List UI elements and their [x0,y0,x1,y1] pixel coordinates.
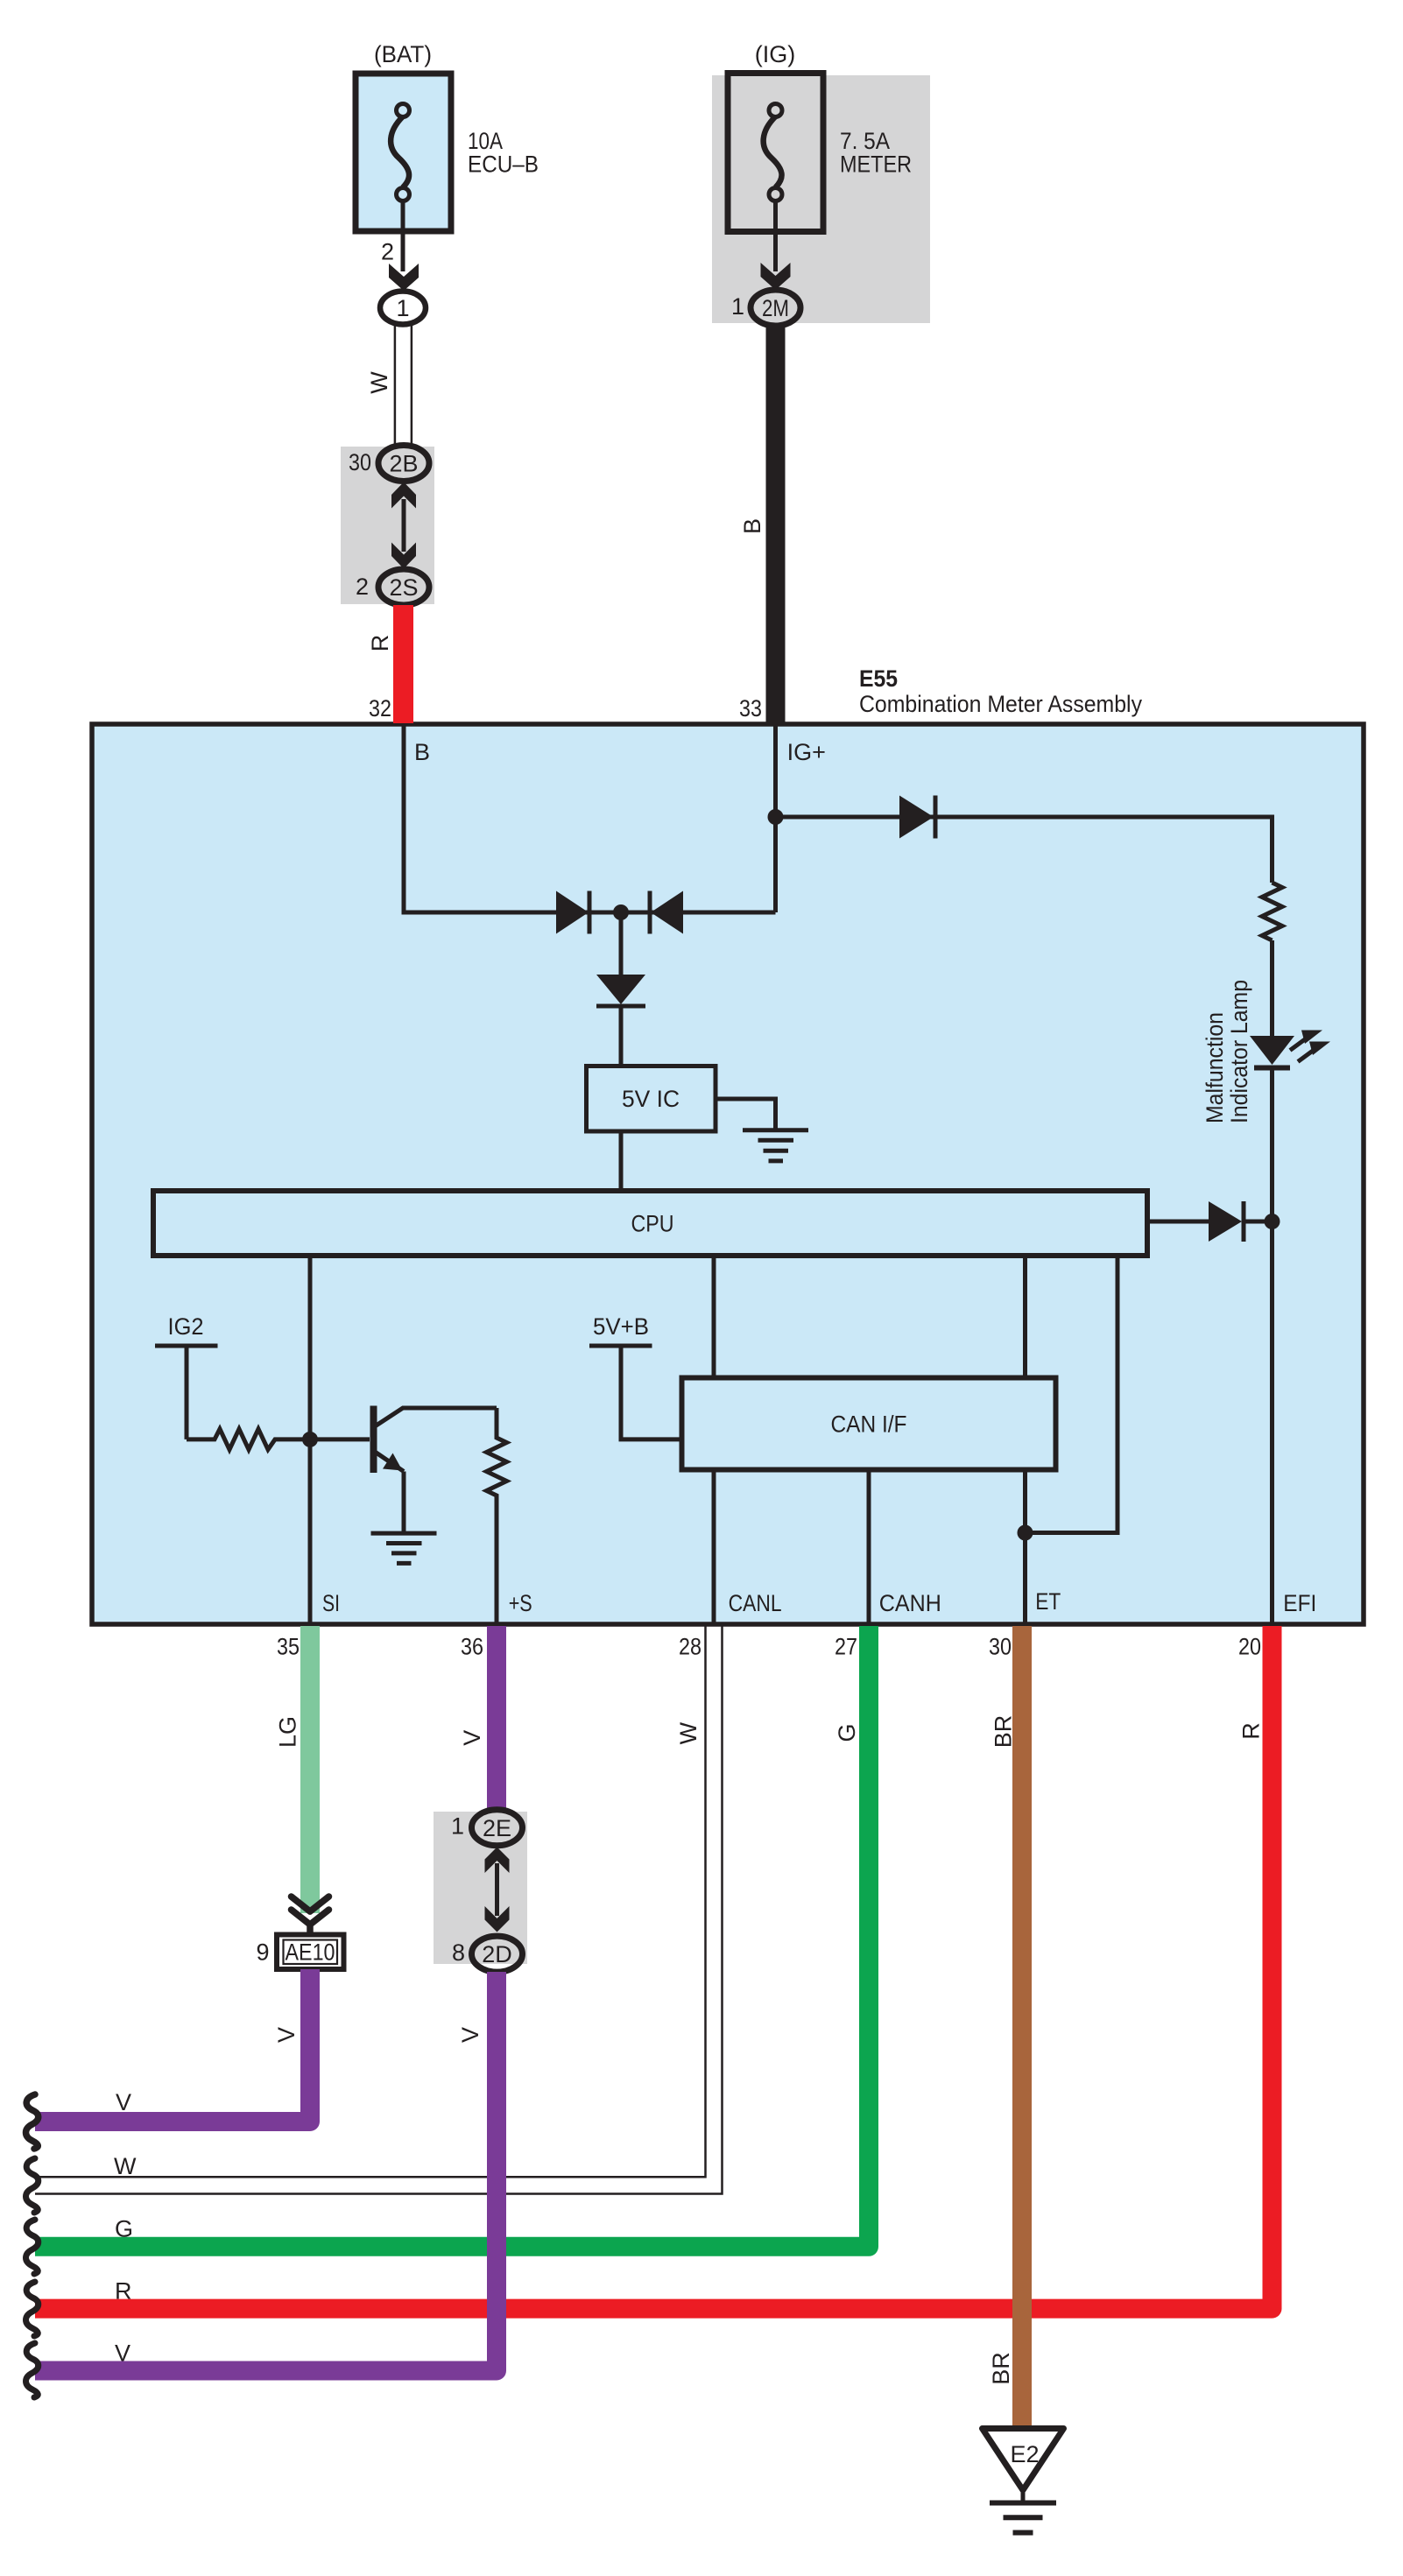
svg-text:33: 33 [739,695,762,721]
wire CPU to diode D5 [1150,1220,1209,1224]
diode D4 (pointing down into 5V IC) [596,975,645,1006]
wire BR from ET pin to E2 ground [1012,1626,1032,2431]
svg-text:R: R [367,635,393,652]
svg-text:AE10: AE10 [286,1939,335,1966]
junction node SI/base [302,1432,318,1447]
wire CPU to ET elbow [1026,1256,1118,1533]
transistor Q1 (NPN) [374,1406,497,1534]
wire V from 2D down to bottom left [35,1972,497,2371]
svg-text:W: W [114,2153,137,2179]
ground (emitter) [371,1533,437,1563]
svg-text:V: V [457,2027,483,2043]
junction node EFI line [1265,1214,1280,1229]
wire CAN I/F to CANH pin [867,1470,871,1622]
svg-text:2E: 2E [483,1815,511,1841]
wire diode pair row [540,911,776,915]
CAN I/F box [682,1378,1056,1470]
junction connector 2B/2S gray background [341,447,434,604]
svg-text:2B: 2B [389,451,418,477]
wire LED to EFI junction and pin EFI [1270,1070,1274,1622]
svg-text:Indicator Lamp: Indicator Lamp [1226,980,1252,1123]
svg-text:IG2: IG2 [168,1313,204,1340]
wire diode to 5V IC [619,1006,624,1066]
svg-text:2S: 2S [389,574,418,601]
connector oval 2M [751,290,800,326]
svg-text:2: 2 [356,574,369,600]
svg-text:E2: E2 [1010,2441,1039,2467]
regulator 5V IC [587,1066,716,1132]
wire W from connector 1 to junction connector 2B [395,324,412,446]
wire R from 2S to meter box pin 32 [393,605,413,723]
wire resistor to LED [1270,940,1274,1037]
svg-text:W: W [366,371,392,394]
junction node at diode pair [613,904,629,920]
resistor R2 (MIL series resistor) [1262,883,1282,940]
wire W from CANL pin to bottom left [35,1626,723,2194]
svg-text:B: B [414,739,430,765]
fuse ECU-B 10A (BAT) [356,74,451,231]
arrow into connector 2M [761,263,791,290]
svg-text:(BAT): (BAT) [374,41,432,67]
node IG+ internal wire (pin 33 down to diode pair row) [773,726,778,912]
svg-text:30: 30 [349,449,371,475]
ground E2 [983,2429,1064,2533]
svg-text:V: V [273,2027,300,2043]
wire CPU to CAN I/F [1023,1256,1027,1378]
svg-text:CAN I/F: CAN I/F [831,1411,907,1438]
diode D5 (CPU to EFI line, pointing right) [1209,1201,1273,1242]
arrow (double chevron) into AE10 [292,1897,329,1935]
double arrow between 2E and 2D [485,1848,510,1932]
power symbol 5V+B [589,1346,680,1439]
diode D2 (from IG+, pointing left) [650,891,683,934]
svg-text:2M: 2M [762,295,789,321]
svg-text:+S: +S [509,1590,532,1616]
svg-text:B: B [739,518,765,534]
ground (5V IC) [743,1130,808,1161]
svg-text:1: 1 [731,293,744,320]
svg-text:CANL: CANL [729,1590,782,1616]
connector oval 2D with pin 8 [472,1936,523,1972]
junction node on IG+ line [768,809,784,825]
wire break squiggle (W) [26,2158,39,2213]
svg-text:5V IC: 5V IC [622,1086,680,1112]
svg-text:G: G [834,1723,860,1742]
wire junction to down diode [619,912,624,975]
connector oval 2E with pin 1 [472,1810,523,1846]
svg-text:R: R [1238,1722,1265,1740]
svg-text:IG+: IG+ [787,739,826,765]
wire CAN I/F to ET pin [1023,1470,1027,1622]
wire B from 2M to meter box pin 33 [766,326,786,723]
svg-text:E55: E55 [859,665,898,692]
wire G from CANH pin to bottom left [35,1626,869,2247]
wire resistor R3 to +S pin [495,1504,499,1623]
wire break squiggle (G) [26,2220,39,2274]
svg-text:10A: 10A [468,128,503,154]
wire from IG+ junction to right side (MIL branch) [776,817,1273,883]
power symbol IG2 [155,1346,218,1439]
svg-text:ET: ET [1035,1588,1061,1615]
wire 5V IC to CPU [619,1131,624,1191]
svg-text:1: 1 [396,295,409,321]
svg-text:5V+B: 5V+B [593,1313,649,1340]
svg-text:(IG): (IG) [755,41,796,67]
svg-text:ECU–B: ECU–B [468,151,539,178]
wire from IG fuse to connector 2M [773,201,778,271]
LED malfunction indicator lamp [1250,1031,1330,1071]
diode D1 (from B, pointing right) [556,891,589,934]
svg-text:2: 2 [381,239,394,265]
svg-text:32: 32 [369,695,391,721]
svg-text:27: 27 [835,1634,857,1660]
svg-text:2D: 2D [482,1941,512,1967]
junction block J/B shading (IG fuse gray background) [712,75,930,323]
wire V from +S pin to connector 2E [487,1626,506,1811]
svg-text:V: V [115,2340,130,2367]
svg-text:Combination Meter Assembly: Combination Meter Assembly [859,691,1142,717]
wire R from EFI pin to bottom left [35,1626,1273,2309]
svg-text:LG: LG [275,1716,301,1748]
svg-text:METER: METER [840,151,912,178]
svg-text:SI: SI [322,1590,340,1616]
diode D3 (to MIL, pointing right) [899,796,935,839]
arrow into connector 1 [389,264,419,291]
svg-text:V: V [459,1730,485,1746]
wire from BAT fuse to connector 1 [401,201,405,271]
svg-text:20: 20 [1238,1634,1261,1660]
svg-text:36: 36 [461,1634,483,1660]
fuse METER 7.5A (IG) [728,74,823,232]
wire LG from SI pin to arrow [300,1626,320,1913]
combination meter assembly box E55 [92,724,1364,1624]
svg-text:R: R [115,2277,132,2304]
connector oval 1 [380,292,426,325]
wire break squiggle (V upper) [26,2094,39,2149]
resistor R1 (base resistor) [187,1429,370,1450]
connector box AE10 [277,1935,344,1970]
junction connector 2E/2D gray background [434,1812,527,1964]
svg-text:EFI: EFI [1283,1590,1316,1616]
CPU box [153,1191,1147,1256]
svg-text:28: 28 [679,1634,701,1660]
node B internal wire (pin 32 down and right to diode pair) [404,726,540,912]
svg-text:35: 35 [277,1634,300,1660]
svg-text:7. 5A: 7. 5A [840,128,890,154]
svg-text:30: 30 [989,1634,1012,1660]
wire CPU to SI pin (vertical) [308,1256,313,1622]
svg-text:CPU: CPU [631,1211,674,1237]
wire break squiggle (V lower) [26,2343,39,2397]
resistor R3 (+S pull-up) [487,1408,507,1504]
double arrow between 2B and 2S [391,482,416,569]
connector oval 2S with pin 2 [378,569,429,605]
wire 5V IC to ground [716,1099,776,1129]
svg-text:W: W [675,1721,701,1744]
svg-text:CANH: CANH [879,1590,941,1616]
svg-text:8: 8 [452,1939,465,1966]
svg-text:9: 9 [256,1939,269,1965]
svg-text:V: V [116,2089,131,2115]
wire V from AE10 to bottom left [35,1969,310,2122]
svg-text:BR: BR [988,2352,1014,2385]
svg-text:Malfunction: Malfunction [1202,1012,1228,1123]
svg-text:1: 1 [451,1813,464,1840]
connector oval 2B with pin 30 [378,446,429,482]
wire break squiggle (R) [26,2282,39,2336]
svg-text:BR: BR [991,1715,1017,1749]
svg-text:G: G [115,2216,133,2242]
junction node ET [1018,1525,1033,1541]
wire CPU to CANL pin [712,1256,716,1622]
